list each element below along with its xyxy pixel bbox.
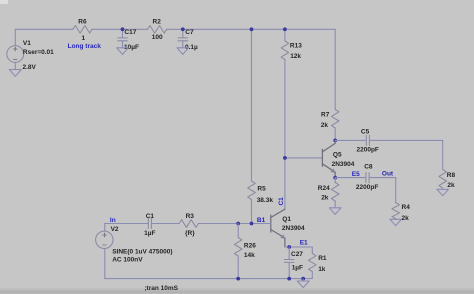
svg-text:2k: 2k bbox=[321, 122, 329, 129]
svg-text:C1: C1 bbox=[278, 197, 285, 206]
resistor R13 bbox=[281, 41, 302, 60]
wire C1 net (Q5 base node to Q1 collector) bbox=[284, 158, 286, 209]
resistor R2 bbox=[148, 18, 167, 41]
node dot collector Q5 bbox=[333, 139, 337, 143]
resistor R4 bbox=[392, 203, 410, 222]
wire to R5 bbox=[251, 29, 253, 181]
top-left artifact bbox=[0, 0, 8, 4]
resistor R7 bbox=[321, 110, 339, 129]
svg-text:Q5: Q5 bbox=[333, 152, 342, 159]
capacitor C17 bbox=[118, 29, 139, 51]
ground (bottom rail) bbox=[297, 279, 309, 288]
resistor R24 bbox=[318, 178, 339, 208]
resistor R5 bbox=[248, 181, 274, 204]
wire C5 to R8 bbox=[442, 140, 444, 169]
svg-text:R8: R8 bbox=[447, 172, 456, 179]
wire R5 to B1 bbox=[251, 200, 253, 224]
svg-text:2k: 2k bbox=[321, 195, 329, 202]
svg-text:2200pF: 2200pF bbox=[357, 147, 379, 154]
ground (V1) bbox=[9, 70, 21, 77]
capacitor C5 bbox=[335, 129, 443, 154]
svg-text:2.8V: 2.8V bbox=[23, 64, 37, 71]
node dot emitter Q5 / E5 bbox=[333, 176, 337, 180]
resistor R26 bbox=[234, 224, 256, 279]
capacitor C8 bbox=[335, 164, 396, 191]
transistor Q1 bbox=[271, 209, 305, 247]
ground (R24) bbox=[329, 208, 341, 215]
svg-text:38.3k: 38.3k bbox=[257, 197, 274, 204]
svg-text:C7: C7 bbox=[185, 29, 194, 36]
svg-text:2N3904: 2N3904 bbox=[282, 225, 305, 232]
svg-text:2N3904: 2N3904 bbox=[332, 161, 355, 168]
capacitor C27 bbox=[284, 247, 303, 279]
svg-text:R4: R4 bbox=[402, 204, 411, 211]
svg-text:C5: C5 bbox=[361, 129, 370, 136]
node dot C17 bbox=[121, 27, 125, 31]
svg-text:V1: V1 bbox=[23, 40, 31, 47]
node dot C7 bbox=[181, 27, 185, 31]
transistor Q5 bbox=[322, 140, 354, 177]
svg-text:AC 100nV: AC 100nV bbox=[112, 257, 143, 264]
ground (R4) bbox=[390, 219, 402, 225]
svg-text:V2: V2 bbox=[111, 226, 119, 233]
node dot bottom-C27 bbox=[287, 277, 291, 281]
svg-text:B1: B1 bbox=[257, 217, 266, 224]
wire Out to R4 bbox=[395, 178, 397, 203]
svg-text:1: 1 bbox=[82, 35, 86, 42]
svg-text:100: 100 bbox=[152, 34, 163, 41]
svg-text:Long track: Long track bbox=[68, 43, 102, 50]
svg-text:R24: R24 bbox=[318, 185, 330, 192]
svg-text:C1: C1 bbox=[146, 213, 155, 220]
ground (C17) bbox=[117, 48, 129, 55]
wire R7 to collector node bbox=[334, 128, 336, 140]
resistor R8 bbox=[439, 170, 456, 189]
svg-text:R26: R26 bbox=[244, 242, 256, 249]
svg-text:Q1: Q1 bbox=[282, 216, 291, 223]
svg-text:2k: 2k bbox=[447, 182, 455, 189]
svg-text:C27: C27 bbox=[291, 251, 303, 258]
svg-text:2k: 2k bbox=[402, 215, 410, 222]
node dot rail-R5 bbox=[250, 27, 254, 31]
svg-text:1µF: 1µF bbox=[144, 230, 155, 237]
svg-text:2200pF: 2200pF bbox=[356, 184, 378, 191]
voltage source V1 bbox=[7, 29, 54, 71]
node dot rail-R13 bbox=[283, 27, 287, 31]
svg-text:R5: R5 bbox=[257, 186, 266, 193]
svg-text:SINE(0 1uV 475000): SINE(0 1uV 475000) bbox=[112, 249, 172, 256]
svg-text:1µF: 1µF bbox=[292, 264, 303, 271]
resistor R3 bbox=[179, 213, 198, 237]
wire bottom rail bbox=[105, 278, 312, 280]
wire rail corner to R7 bbox=[334, 29, 336, 109]
capacitor C7 bbox=[178, 29, 198, 51]
svg-text:C8: C8 bbox=[364, 164, 373, 171]
node dot bottom-ground bbox=[301, 277, 305, 281]
svg-text:R6: R6 bbox=[78, 18, 87, 25]
wire E1 bbox=[285, 246, 312, 248]
svg-text:Rser=0.01: Rser=0.01 bbox=[23, 49, 54, 56]
resistor R6 bbox=[73, 18, 92, 42]
wire top rail bbox=[15, 28, 335, 30]
ground (C7) bbox=[177, 48, 189, 55]
svg-text:1k: 1k bbox=[318, 266, 326, 273]
svg-text:Out: Out bbox=[382, 170, 394, 177]
svg-text:14k: 14k bbox=[244, 252, 255, 259]
node dot Q5 base bbox=[283, 156, 287, 160]
capacitor C1 bbox=[105, 213, 179, 237]
svg-text:R3: R3 bbox=[186, 213, 195, 220]
ground (R8) bbox=[437, 189, 449, 195]
node dot E1-C27 bbox=[287, 245, 291, 249]
wire B1 (R3 to Q1 base) bbox=[198, 223, 270, 225]
svg-text:R7: R7 bbox=[321, 112, 330, 119]
svg-text:R13: R13 bbox=[290, 43, 302, 50]
resistor R1 bbox=[309, 247, 327, 279]
bottom window edge bbox=[0, 289, 474, 294]
svg-text:C17: C17 bbox=[124, 29, 136, 36]
svg-text:E1: E1 bbox=[300, 240, 308, 247]
svg-text:{R}: {R} bbox=[185, 230, 195, 237]
wire rail to R13 bbox=[284, 29, 286, 41]
svg-text:12k: 12k bbox=[290, 53, 301, 60]
svg-text:In: In bbox=[110, 217, 116, 224]
wire Q5 base bbox=[285, 157, 323, 159]
svg-text:R2: R2 bbox=[153, 18, 162, 25]
node dot B1-R5 bbox=[250, 222, 254, 226]
svg-text:;tran 10mS: ;tran 10mS bbox=[144, 285, 178, 292]
node dot bottom-R26 bbox=[236, 277, 240, 281]
node dot B1-R26 bbox=[236, 222, 240, 226]
svg-text:R1: R1 bbox=[318, 255, 327, 262]
wire R13 to Q5 base node bbox=[284, 60, 286, 158]
voltage source V2 bbox=[96, 224, 173, 279]
